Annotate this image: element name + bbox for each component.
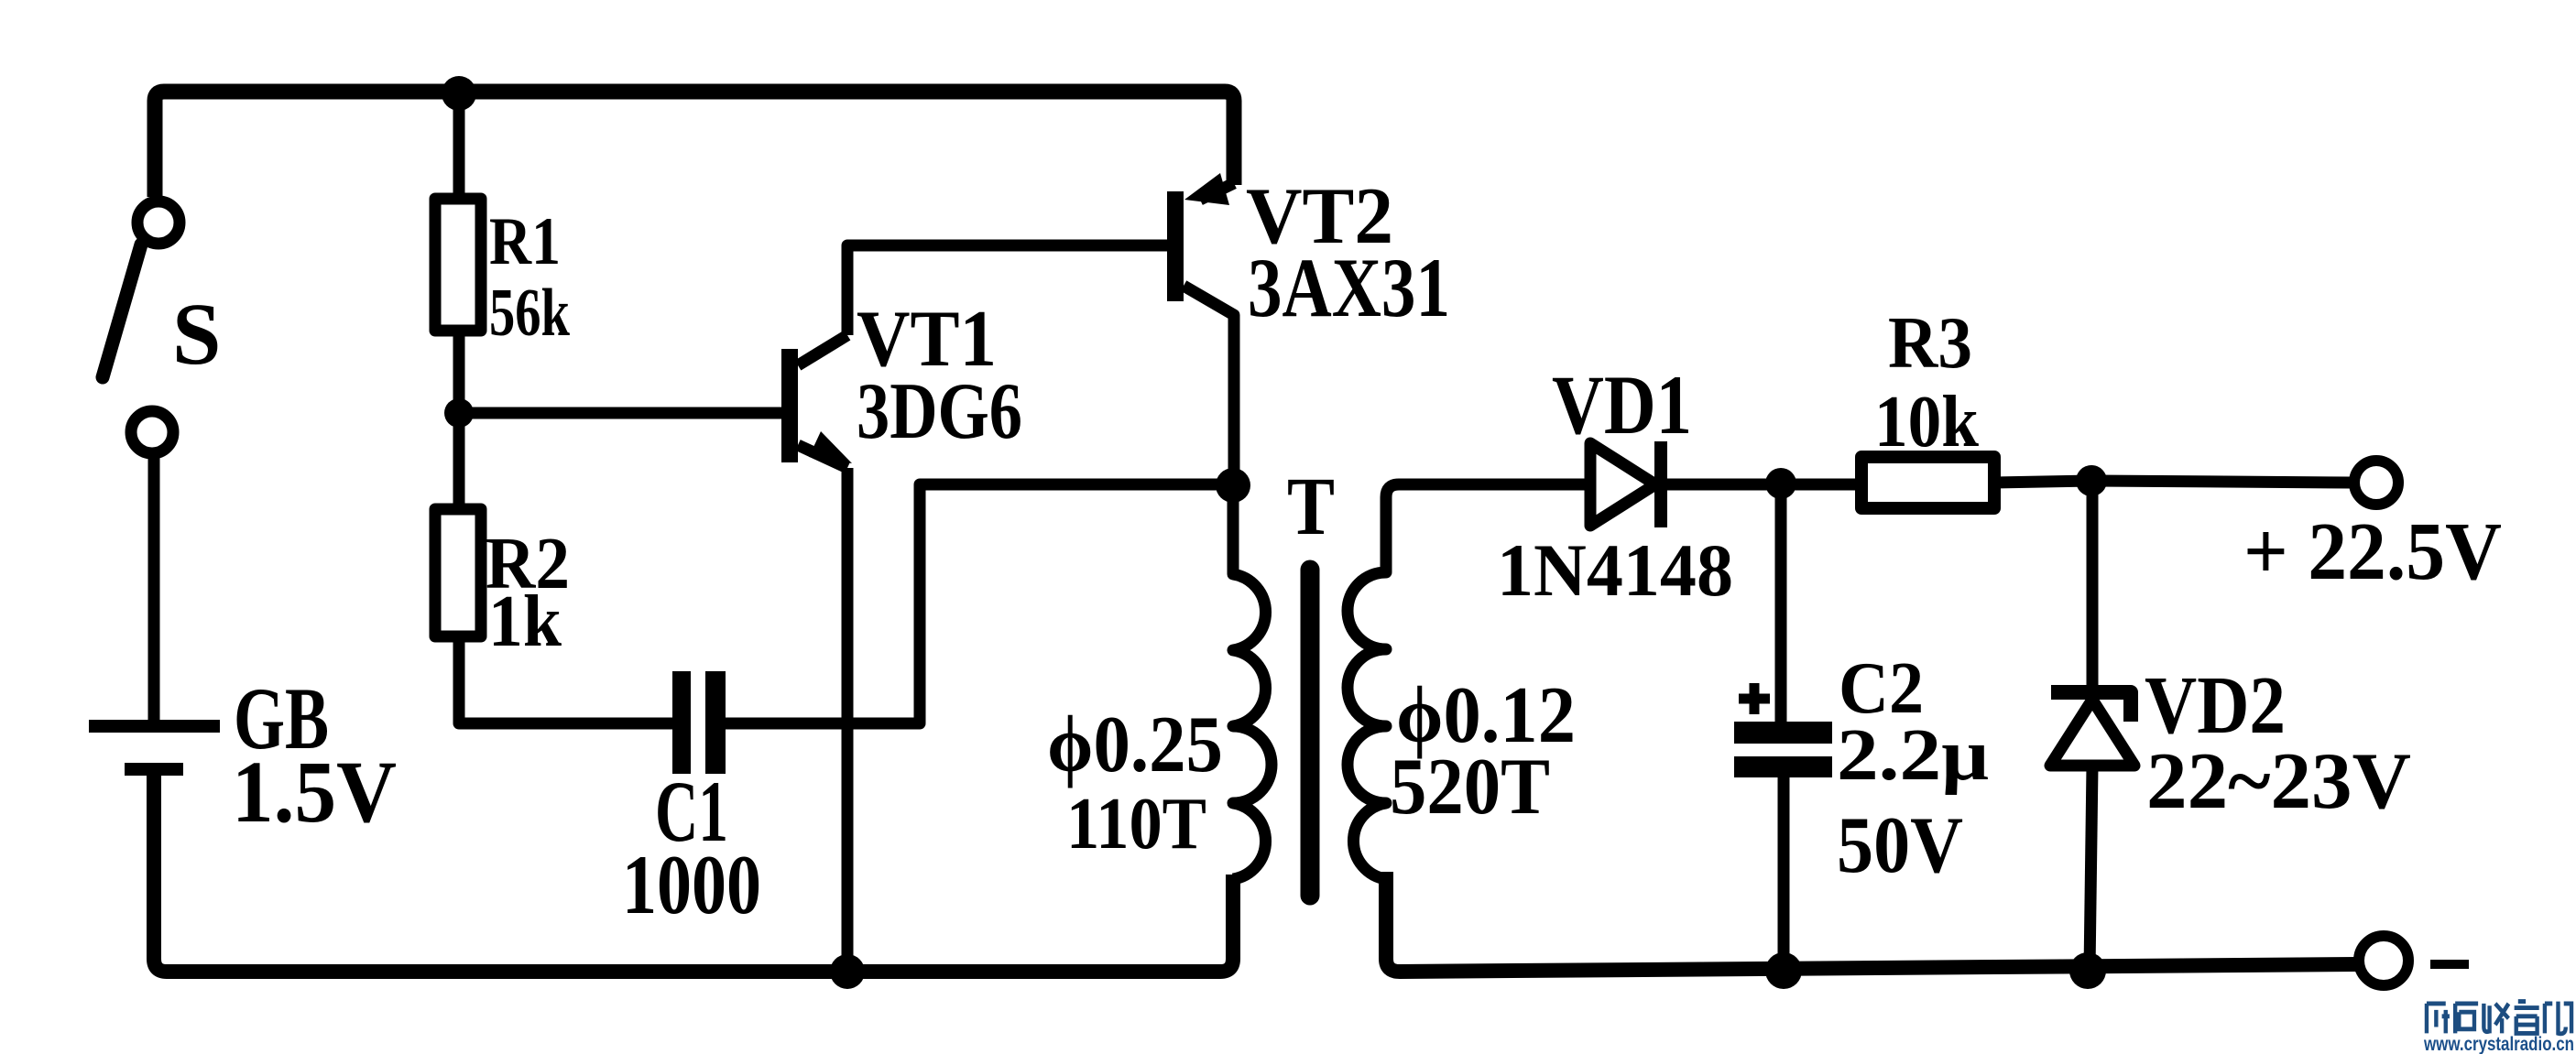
node junction top rail / R1 [442, 76, 476, 111]
wire R2 to C1 left plate [459, 636, 672, 723]
svg-text:2.2μ: 2.2μ [1837, 715, 1989, 796]
svg-text:T: T [1287, 462, 1335, 552]
transistor VT1 3DG6 [781, 335, 852, 468]
svg-text:1N4148: 1N4148 [1497, 528, 1733, 612]
svg-text:520T: 520T [1390, 743, 1550, 831]
wire R3 right to node [1994, 481, 2350, 483]
node junction VT2 collector / primary winding [1216, 468, 1250, 503]
svg-text:R3: R3 [1888, 303, 1972, 384]
node junction VD2 / bottom rail [2069, 952, 2106, 989]
svg-text:50V: 50V [1837, 801, 1963, 890]
transformer core [1301, 570, 1320, 896]
svg-text:+ 22.5V: + 22.5V [2243, 506, 2502, 597]
terminal minus output [2359, 936, 2408, 985]
svg-text:1.5V: 1.5V [232, 743, 397, 841]
transistor VT2 3AX31 [1167, 173, 1234, 484]
svg-text:3AX31: 3AX31 [1248, 241, 1450, 334]
node junction VD1 / R3 / C2 [1765, 468, 1796, 499]
node junction bottom rail / VT1 emitter [830, 954, 865, 989]
wire secondary bottom rail to minus terminal [1386, 872, 2357, 972]
node junction C2 / bottom rail [1765, 952, 1802, 989]
node junction R3 / VD2 / +output [2076, 465, 2107, 496]
svg-text:ϕ0.25: ϕ0.25 [1047, 701, 1223, 789]
svg-text:S: S [172, 285, 221, 383]
terminal +22.5V output [2354, 461, 2398, 505]
switch S [103, 201, 180, 453]
svg-text:www.crystalradio.cn: www.crystalradio.cn [2423, 1034, 2574, 1054]
wire R1 to R2 [453, 331, 465, 509]
label minus [2430, 960, 2469, 969]
wire switch to battery [148, 452, 160, 723]
diode VD1 1N4148 [1590, 441, 1861, 527]
watermark logo [2427, 1002, 2571, 1034]
node junction R1/R2/VT1 base [444, 398, 474, 428]
wire C1 right plate to collector node of VT2 [726, 484, 1233, 723]
svg-text:22~23V: 22~23V [2146, 737, 2411, 826]
wire battery to bottom rail, primary bottom rail [154, 769, 1233, 972]
svg-text:VD1: VD1 [1552, 358, 1692, 451]
wire VT1 collector to VT2 base [847, 245, 1167, 335]
resistor R3 [1861, 457, 1994, 508]
wire top rail to R1 [453, 92, 465, 199]
capacitor C1 [672, 671, 726, 774]
svg-text:56k: 56k [489, 276, 571, 351]
svg-text:110T: 110T [1066, 784, 1206, 864]
zener diode VD2 22~23V [2050, 481, 2134, 971]
wire base of VT1 [459, 407, 781, 419]
transformer T primary winding 110T [1233, 485, 1272, 879]
svg-text:1000: 1000 [622, 838, 761, 931]
wire VT1 emitter down to bottom rail [842, 468, 854, 972]
battery GB 1.5V [89, 726, 220, 769]
svg-text:1k: 1k [488, 581, 562, 662]
resistor R1 [435, 199, 481, 331]
transformer T secondary winding 520T [1348, 484, 1590, 879]
wire top rail from switch to VT2 emitter [155, 92, 1234, 197]
capacitor C2 2.2u 50V [1734, 484, 1832, 971]
svg-text:3DG6: 3DG6 [857, 367, 1022, 456]
resistor R2 [435, 509, 481, 636]
svg-text:R1: R1 [489, 204, 561, 279]
svg-text:10k: 10k [1874, 382, 1979, 462]
